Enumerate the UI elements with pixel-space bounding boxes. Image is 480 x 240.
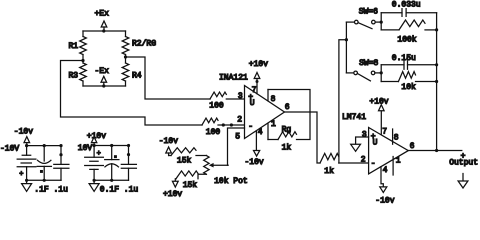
svg-text:1k: 1k <box>282 144 292 153</box>
ground (right supply) <box>89 180 99 191</box>
resistor R4 <box>122 57 142 86</box>
junction supply tl-b <box>43 144 46 147</box>
junction pin2 wire a <box>222 123 225 126</box>
capacitor 0.15u <box>381 54 436 69</box>
svg-text:1k: 1k <box>324 167 334 176</box>
svg-text:+: + <box>97 150 101 158</box>
wire switch common riser <box>345 22 347 73</box>
svg-text:LM741: LM741 <box>342 113 366 122</box>
junction supply tr-c <box>127 144 130 147</box>
ground (output) <box>458 174 468 189</box>
resistor 10k <box>381 72 436 93</box>
power -10v (supply rail) <box>14 128 33 146</box>
wire LM741 output <box>408 150 462 152</box>
wire supply bottom right <box>94 179 128 181</box>
svg-text:15k: 15k <box>183 181 198 190</box>
junction output feedback <box>435 149 438 152</box>
resistor R3 <box>69 61 87 87</box>
junction supply tr-d <box>127 153 130 156</box>
svg-text:10V: 10V <box>78 144 93 153</box>
power +10v (LM741) <box>369 98 388 111</box>
svg-text:SW=6: SW=6 <box>359 7 378 16</box>
wire pot bottom to 15k <box>198 174 206 178</box>
svg-text:-10v: -10v <box>245 158 264 167</box>
pin 1 tick <box>392 157 394 176</box>
svg-text:100k: 100k <box>397 35 416 44</box>
svg-text:+Ex: +Ex <box>95 10 110 19</box>
junction pin 7 stem <box>256 80 259 83</box>
pin 7 wire (LM741) <box>380 111 382 135</box>
op-amp U2 LM741 <box>342 113 408 174</box>
capacitor 0.1F (polarized) <box>105 146 119 181</box>
svg-text:100: 100 <box>209 102 224 111</box>
junction supply tl-a <box>25 144 28 147</box>
svg-text:10k: 10k <box>401 83 416 92</box>
svg-text:-10v: -10v <box>159 137 178 146</box>
wire supply top right <box>94 145 128 147</box>
resistor R1 <box>69 31 87 61</box>
svg-text:-: - <box>371 159 376 168</box>
svg-text:10k Pot: 10k Pot <box>214 177 248 186</box>
svg-text:-: - <box>248 123 253 132</box>
svg-text:3: 3 <box>238 92 243 101</box>
resistor 15k (upper) <box>169 148 196 166</box>
svg-text:2: 2 <box>237 116 242 125</box>
svg-text:15k: 15k <box>177 156 192 165</box>
svg-text:-Ex: -Ex <box>95 67 110 76</box>
junction supply bl-a <box>25 179 28 182</box>
power +10v (pot) <box>163 179 182 199</box>
ground (left supply) <box>22 180 32 191</box>
junction supply tl-c <box>59 144 62 147</box>
svg-text:R4: R4 <box>132 72 142 81</box>
switch SW=8 <box>346 59 381 81</box>
wire supply top left <box>27 145 61 147</box>
svg-text:1: 1 <box>271 120 276 129</box>
junction 0.15u right <box>435 63 438 66</box>
svg-text:-10V: -10V <box>0 144 19 153</box>
svg-text:+10v: +10v <box>249 60 268 69</box>
svg-text:R3: R3 <box>69 71 79 80</box>
junction 10k right <box>435 80 438 83</box>
svg-text:Rg: Rg <box>282 126 292 135</box>
power +10v (INA121) <box>249 60 268 82</box>
junction supply tr-a <box>93 144 96 147</box>
resistor 100 (pin 2 input) <box>202 118 220 137</box>
wire bridge left tap to in-amp <box>61 61 203 126</box>
capacitor 0.1u <box>121 146 136 181</box>
junction bridge bottom <box>102 84 105 87</box>
svg-text:2: 2 <box>361 156 366 165</box>
svg-text:.1F .1u: .1F .1u <box>34 186 68 195</box>
svg-text:0.1F .1u: 0.1F .1u <box>100 186 139 195</box>
pin 4 wire <box>255 131 257 151</box>
pin 8 wire <box>267 90 269 101</box>
power -10v (INA121) <box>245 151 264 167</box>
power -Ex <box>95 67 110 86</box>
svg-text:100: 100 <box>206 128 221 137</box>
svg-text:7: 7 <box>252 86 257 95</box>
svg-text:4: 4 <box>258 128 263 137</box>
potentiometer 10k Pot <box>204 156 248 187</box>
wire to pin 3 <box>226 98 244 100</box>
svg-text:8: 8 <box>394 133 399 142</box>
svg-text:4: 4 <box>383 166 388 175</box>
power -10v (LM741) <box>375 187 394 206</box>
svg-text:7: 7 <box>382 128 387 137</box>
label Output <box>449 152 478 168</box>
svg-text:0.033u: 0.033u <box>392 1 421 10</box>
svg-text:SW=8: SW=8 <box>359 59 378 68</box>
junction switch common <box>345 38 348 41</box>
wire pin 5 to pot wiper <box>228 128 245 165</box>
wire SW8 branch left <box>380 65 382 82</box>
svg-text:+10v: +10v <box>369 98 388 107</box>
junction SW6 right <box>380 21 383 24</box>
resistor 100 (pin 3 input) <box>209 92 226 110</box>
pin 8 tick <box>392 129 394 144</box>
pin 7 wire <box>256 82 258 94</box>
svg-text:R1: R1 <box>69 42 79 51</box>
junction supply tr-b <box>110 144 113 147</box>
svg-text:INA121: INA121 <box>219 73 248 82</box>
wire INA output <box>285 112 321 163</box>
resistor R2/RG <box>122 31 156 57</box>
resistor 1k (to LM741) <box>320 153 339 176</box>
junction bridge top <box>102 29 105 32</box>
resistor 15k (lower) <box>176 171 198 190</box>
svg-text:R2/RG: R2/RG <box>132 40 156 49</box>
junction 100k right <box>435 28 438 31</box>
svg-text:Output: Output <box>449 159 478 168</box>
resistor 100k <box>381 20 436 44</box>
junction supply br-b <box>110 179 113 182</box>
ground (LM741 pin 3) <box>351 137 369 151</box>
wire SW6 branch left <box>380 13 382 30</box>
svg-text:+10v: +10v <box>163 190 182 199</box>
battery 10V <box>85 146 104 181</box>
svg-text:U: U <box>373 139 378 148</box>
battery -10V <box>17 146 36 181</box>
wire bridge right tap to in-amp <box>126 57 211 99</box>
svg-text:6: 6 <box>410 142 415 151</box>
junction bridge left node <box>81 59 84 62</box>
wire supply bottom left <box>27 179 61 181</box>
power +10v (supply rail) <box>87 132 106 146</box>
wire switch common vertical <box>339 40 347 163</box>
junction supply tl-d <box>59 153 62 156</box>
svg-text:-10v: -10v <box>375 197 394 204</box>
wire bridge bottom <box>83 85 126 87</box>
wire to LM741 pin 2 <box>339 162 369 164</box>
capacitor .1u <box>54 146 69 181</box>
svg-text:6: 6 <box>285 103 290 112</box>
junction bridge right node <box>124 55 127 58</box>
junction supply bl-b <box>43 179 46 182</box>
svg-text:3: 3 <box>362 130 367 139</box>
pin 1 wire <box>267 123 269 139</box>
svg-text:+10v: +10v <box>87 132 106 141</box>
power +Ex <box>95 10 110 32</box>
junction supply br-a <box>93 179 96 182</box>
power -10v (pot) <box>159 137 178 156</box>
wire 15k to pot top <box>196 155 206 157</box>
junction pin2 wire b <box>230 123 233 126</box>
resistor Rg 1k (gain loop) <box>268 90 310 153</box>
junction SW8 right <box>380 71 383 74</box>
wire feedback right vertical <box>436 13 438 151</box>
pin 4 wire (LM741) <box>381 167 383 187</box>
wire bridge top <box>83 30 126 32</box>
svg-text:5: 5 <box>235 133 240 142</box>
wire to pin 2 <box>218 124 245 126</box>
op-amp U1 INA121 <box>219 73 285 138</box>
svg-text:+: + <box>19 170 23 178</box>
svg-text:U: U <box>250 99 255 108</box>
svg-text:-10v: -10v <box>14 128 33 137</box>
capacitor 0.033u <box>381 1 436 17</box>
switch SW=6 <box>346 7 381 28</box>
svg-text:8: 8 <box>271 95 276 104</box>
svg-text:0.15u: 0.15u <box>392 54 416 63</box>
svg-text:1: 1 <box>396 157 401 166</box>
capacitor .1F (polarized) <box>37 146 51 181</box>
